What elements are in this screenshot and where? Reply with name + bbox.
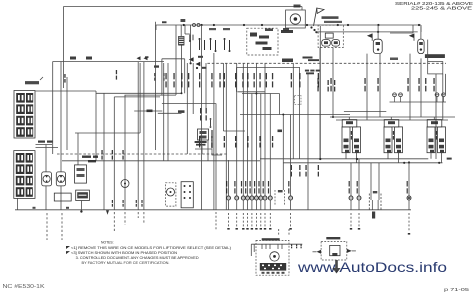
fuse block below-bus label [372,212,375,219]
bullet conn 1 [193,24,196,27]
wire drop 413 [412,25,414,33]
wire v x236.7 [236,63,238,196]
dashed tail x114 [113,212,115,231]
wire coil feed [181,45,183,93]
right code label x410 [407,78,408,84]
module A1 inner rect [325,33,333,38]
junction cluster dots [190,62,192,64]
wire v x216 [215,104,217,210]
wire code label x301.8 [299,73,300,79]
wire h y133 [75,132,140,134]
wire bus y162.5 [283,162,443,164]
wire sol342 bot2 [356,153,358,163]
wire drop to motor [301,7,303,11]
wire sol384 bot2 [398,153,400,163]
wire bus corner drop [420,25,422,32]
wire v x243.3 [242,63,244,196]
dashed stub x216 [215,212,217,230]
wire v x61 lower [60,186,62,210]
junction dot bus x337.8 [337,24,339,26]
callout on dashed net [282,59,293,63]
wire left horizontal [53,61,164,63]
solenoid group V1 [342,120,357,127]
wire v x190.6 [190,25,192,63]
relay K4 label rows [195,141,207,143]
label above-line 1 [70,57,76,60]
gauge M3 dial [57,175,64,182]
wire label near x114.3 mid [112,150,113,154]
wire v x308 [307,74,309,210]
contact near K4 [210,120,212,126]
label above S2 [223,28,230,30]
wire code label x213.9 [211,73,212,79]
svg-text:3. CONTROLLED DOCUMENT. ANY CH: 3. CONTROLLED DOCUMENT. ANY CHANGES MUST… [76,256,200,260]
label bus end [447,158,452,160]
relay K3 inner marks [259,36,269,39]
ring terminal x228.5 [227,196,231,200]
junction y117 x333 [332,116,334,118]
wire label x211 [211,130,212,138]
wire second bus y31.9 [315,31,418,33]
right code label x436 [433,78,434,84]
wire sol342 bot1 [345,153,347,159]
relay K4 marks [200,131,207,134]
ring terminal x270.3 [268,196,272,200]
wire v x187 [186,63,188,154]
wire v x378.1 feed [377,25,379,39]
wire v x270.3 [269,94,271,196]
wire v x46 upper [45,145,47,172]
detail CE models [326,237,340,239]
wire v x442.8 [442,74,444,120]
wire v x46 lower [45,186,47,210]
flasher FL label [77,192,88,198]
wire code label2 x213.9 [211,136,212,141]
label right of K1 [82,156,91,158]
relay K1 box [75,165,87,183]
wire v x260.8 [260,94,262,196]
wire short bus right [390,32,413,34]
wire J1 top lead [40,77,43,80]
wire sol384 top [390,117,392,120]
dashed net y63 [207,62,446,64]
terminal label x251.9 [250,181,251,187]
wire code label x249.8 [247,73,248,79]
terminal label x228.5 [226,181,227,187]
ring terminal x256.4 [254,196,258,200]
junction y93.5 x256 [255,93,257,95]
wire v x52.7 [52,62,54,155]
CE down arrow [332,260,340,274]
coil L1 [179,37,185,46]
ring terminal x265 [263,196,267,200]
lower code label x301.8 [299,165,300,170]
wire code label x190.6 [188,73,189,79]
label below A2 [390,58,398,61]
wire h y96.9 [114,96,160,98]
wire h y93.3 [96,92,182,94]
wire v x163 [163,63,165,161]
label above S1 [209,28,216,30]
svg-text:<1] REMOVE THIS WIRE ON CE MOD: <1] REMOVE THIS WIRE ON CE MODELS FOR LI… [71,246,231,250]
relay K3 inner blob [250,33,257,37]
ring terminal x351 [349,196,353,200]
bullets left of A1 [310,26,312,28]
wire v x228.5 [228,160,230,196]
wire v x67 [66,77,68,150]
wire v x427.7 [427,40,429,62]
terminal label x265 [263,181,264,187]
flasher FL drop [80,201,82,212]
wire stem x409 [408,163,410,196]
wire label above bus x138.2 [136,200,137,203]
dashed tail x138 [137,212,139,218]
label row above A1 [324,21,342,23]
wire label above bus x143.9 [141,200,142,203]
wire code label x262 [259,73,260,79]
terminal T2 [399,93,403,97]
terminal label x270.3 [268,181,269,187]
wire code label x183.8 [181,73,182,79]
wire h y111.4 [344,110,386,112]
right code label x421 [418,78,419,84]
svg-text:BY FACTORY MUTUAL FOR CE CERTI: BY FACTORY MUTUAL FOR CE CERTIFICATION. [82,261,170,265]
wire code label x201.6 [199,73,200,79]
junction dot bus x378.4 [377,24,379,26]
wire code label x168 [165,73,166,79]
bus down-arrow x107 [106,210,109,215]
dashed tail x47 [46,213,48,240]
wire sol427 bot2 [441,153,443,163]
solenoid group V3 [427,120,442,127]
wire v x279.5 [279,94,281,115]
wire v x299.6 [299,67,301,159]
gauge M2 dial [43,175,50,182]
wire sol384 bot1 [387,153,389,159]
terminal label x359 [357,181,358,187]
wire label near x125 mid [122,150,123,154]
wire A3 drop2 [420,58,422,117]
label on bus x265 [265,29,273,32]
bullet conn 2 [197,24,200,27]
wire v x96 box edge [95,91,97,161]
junction y159 x357 [356,158,358,160]
motor M1 circle [290,14,300,24]
terminal label x243.3 [241,181,242,187]
wire A2 drop2 [379,54,381,117]
dashed stub x289 up [288,229,290,236]
wire h y120 [336,119,448,121]
wire h y91.8 [237,91,264,93]
wire v x226.3 [225,63,227,210]
wire h y114.5 [240,114,350,116]
junction dot bus x201.6 [201,24,203,26]
right code label x427.7 [425,78,426,84]
wire J2 inter-block 2 [36,147,59,149]
wire h y113 [158,112,182,114]
dashed stub x260.8 [260,213,262,227]
wire v x202 [201,146,203,154]
wire code label x226.3 [224,73,225,79]
module A1 dashed box [318,25,343,47]
wire v x290.6 [290,115,292,196]
dashed net y154 [57,153,228,155]
wire J2 bottom drop [16,198,18,209]
label above-line 2 [86,57,92,60]
label y111 b [178,110,185,113]
wire v x155 center block edge [155,22,157,150]
wire sol427 bot1 [430,153,432,159]
dashed tail x125 [124,212,126,225]
label rows x305 [305,70,309,72]
lower code label x320.3 [318,165,319,170]
motor M1 box [286,10,306,28]
relay module K3 dashed box [247,28,278,55]
wire coil top feed [180,25,182,37]
wire h y117 [330,116,455,118]
terminal label x247.5 [245,181,246,187]
wire v x78 [77,133,79,165]
wire code label x320.3 [318,73,319,79]
motor M1 center [294,17,298,21]
dashed stub x243.3 [242,213,244,227]
flag A2 [371,34,373,41]
ring terminal x236.7 [235,196,239,200]
wire label x64 [64,74,65,78]
motor M1 top label [294,5,301,8]
wire code label x256.1 [254,73,255,79]
switch S0 [189,35,191,41]
gauge M3 body [56,172,65,186]
dashed stub x236.7 [236,213,238,227]
wire code label x268.3 [266,73,267,79]
dashed stub x278 up [278,229,280,236]
junction y114.5 x283 [282,114,284,116]
junction y159 x320 [319,158,321,160]
junction dot bus x307 [306,24,308,26]
connector J1 [14,91,35,139]
dashed tail x144 [143,212,145,223]
wire v x161.9 [161,59,163,95]
terminal label x260.8 [258,181,259,187]
junction coil [181,92,183,94]
wire label above bus x125 [123,200,124,203]
svg-text:<3] SWITCH SHOWN WITH BOOM IN: <3] SWITCH SHOWN WITH BOOM IN PHASED POS… [71,251,178,255]
label inter-block [38,141,45,143]
module A1 capsule marks [324,41,328,44]
wire v x283.3 [282,115,284,191]
label cluster right of K3 [281,30,293,33]
wire v x320.3 [319,26,321,159]
ring terminal x290.6 [289,196,293,200]
wire v x193 [192,63,194,114]
wire v x125 [124,95,126,210]
wire v x208 [207,140,209,161]
svg-text:www.AutoDocs.info: www.AutoDocs.info [297,259,447,275]
wire h y131 [223,130,245,132]
junction y162.8 x439 [438,162,440,164]
wire v x265 [264,63,266,196]
label TILT row [425,54,445,58]
dashed stub x270.3 [269,213,271,227]
ring terminal x409 [407,196,411,200]
flag A3 [413,34,415,41]
module A3 capsule [418,39,424,54]
callout arrow left [145,56,149,58]
label col x327 [328,80,329,85]
terminal label x351 [349,181,350,187]
ring terminal x359 [357,196,361,200]
junction y162.8 x404 [403,162,405,164]
terminal label x256.4 [254,181,255,187]
dashed column left [274,190,276,206]
wire code label2 x249.8 [247,136,248,141]
sender box dots [184,185,186,187]
switch S1 contacts [210,40,212,50]
terminal label x236.7 [234,181,235,187]
wire code label x176 [173,73,174,79]
junction y31.9 x378 [377,31,379,33]
terminal label x409 [407,181,408,187]
wire v x436 low [435,74,437,159]
sender box B6 [181,182,193,208]
wire h y95.1 [125,94,177,96]
svg-text:p 71-05: p 71-05 [444,287,470,292]
wire v x168 [167,63,169,161]
svg-text:NOTES:: NOTES: [101,241,114,245]
wire A3 drop1 [409,54,411,120]
wire v x206 [205,63,207,108]
junction cluster arrows [189,57,194,61]
wire J2 inter-block 1 [36,144,53,146]
wire top-left box left edge [63,7,65,89]
dashed stub x228.5 [228,213,230,227]
wire v x104 [103,93,105,210]
flasher FL box [76,190,90,200]
wire v x213.9 [213,53,215,210]
fuse block inner [371,200,373,210]
module A2 capsule marks [376,42,380,45]
dashed stub x290.6 [290,213,292,227]
right code label x367 [364,78,365,84]
wire v x293.3 [292,63,294,159]
wire A1 drop2 [332,48,334,118]
wire code label x237.6 [235,73,236,79]
connector J2 [14,151,35,199]
wire v x144 [143,62,145,210]
wire bus y160.8 left [62,160,260,162]
wire v x223.4 [222,63,224,131]
wire code label2 x226.3 [224,136,225,141]
gauge M4 dashed box [166,183,176,206]
wire main top bus [156,24,421,26]
wire h y67.2 [237,66,300,68]
junction dot bus x183.8 [183,24,185,26]
dashed column right [284,190,286,206]
label rows x303 y57 [303,57,313,59]
wire h y103.6 [162,103,216,105]
svg-text:225-245 & ABOVE: 225-245 & ABOVE [411,6,473,12]
switch S3 contacts [199,40,201,50]
wire h y58.8 [162,58,185,60]
label col x334 [334,80,335,85]
label 6P [278,190,283,192]
label B+ on bus [162,21,167,23]
label on bus x284 [283,28,289,31]
ring terminal x251.9 [250,196,254,200]
wire stem x359 [358,159,360,196]
junction dot bus x348 [347,24,349,26]
wire v x114 [113,97,115,210]
wire bus y159 [260,158,428,160]
relay K4 label cols [200,108,201,114]
wire code label x293.3 [291,73,292,79]
wire v x236.5 [236,67,238,91]
wire v x256.4 [255,63,257,196]
wire code x160 [163,73,164,76]
dashed stub x409 [408,213,410,232]
module A1 capsule R [332,40,340,47]
terminal T3 [435,93,439,97]
right code label x380 [377,78,378,84]
wire step y149 [195,149,222,155]
wire sol342 top [348,117,350,120]
wire h y102r [390,101,447,103]
wire v x61 upper [60,62,62,172]
wire sol427 top [433,117,435,120]
switch S2 contacts [224,40,226,50]
dashed stub x265 [264,213,266,227]
relay K1 marks [77,168,85,171]
wire v x185 jog [184,25,186,34]
wire label near x116 [116,70,117,74]
wire label above bus x114.3 [112,200,113,203]
junction dot bus x213.9 [213,24,215,26]
bus tick b [66,207,69,209]
wire top border [64,6,303,8]
junction dot bus x262 [261,24,263,26]
wire stem FB [370,163,372,200]
junction dot bus x419 [418,24,420,26]
wire A1 drop1 [319,48,321,159]
wire v x140 [139,63,141,133]
wire bus corner left [155,25,157,30]
wire code label x274.5 [272,73,273,79]
dashed tail x62 [61,213,63,240]
lower code label x308 [305,165,306,170]
dashed stub x359 [358,213,360,227]
wire v x201.6 [201,25,203,210]
wire code label x244.9 [242,73,243,79]
wire v x176 [175,25,177,95]
terminal label x290.6 [288,181,289,187]
detail lift/drive select [262,238,280,240]
dashed stub x247.5 [247,213,249,227]
module A2 capsule [373,39,382,53]
wire stem x351 [350,163,352,196]
wire h y91 [36,90,97,92]
callout arrow 1 [137,56,141,60]
wire v x184.7 [184,59,186,94]
wire A2 drop1 [366,54,368,120]
wire main ground bus [15,209,411,211]
module A1 capsule L [322,40,331,47]
coil L1 ribs [179,38,184,39]
wire A3 corner [420,26,422,39]
wire v x251.9 [251,94,253,196]
flag symbol [314,8,317,26]
junction y162 x409 [408,161,410,163]
